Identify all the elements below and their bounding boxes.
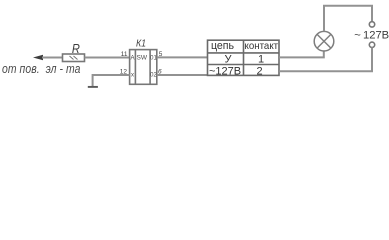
svg-text:К1: К1 — [136, 38, 146, 49]
connector table — [208, 40, 280, 75]
svg-text:~127В: ~127В — [209, 65, 241, 77]
svg-text:2: 2 — [256, 65, 262, 77]
wire relay pin 6 to table circuit ~127V — [157, 74, 208, 76]
svg-text:контакт: контакт — [245, 41, 279, 52]
lamp — [314, 31, 334, 51]
svg-text:А: А — [130, 56, 134, 62]
svg-text:11: 11 — [121, 51, 128, 58]
svg-text:SW: SW — [137, 55, 148, 62]
svg-text:У: У — [225, 53, 233, 65]
wire table contact 1 to lamp — [279, 51, 324, 57]
wire resistor to relay pin 11 — [85, 57, 130, 59]
terminal 1 — [369, 22, 374, 27]
svg-text:х: х — [131, 73, 134, 79]
wire relay pin 5 to table circuit U — [157, 56, 208, 58]
wire lamp to terminal 1 — [324, 6, 372, 31]
arrow to external element — [33, 55, 63, 60]
resistor R — [63, 54, 85, 62]
ground — [88, 86, 98, 88]
terminal 2 — [369, 42, 374, 47]
wire relay pin 12 to ground — [93, 75, 130, 86]
svg-text:от пов. эл - та: от пов. эл - та — [2, 62, 81, 76]
wire terminal 2 to table contact 2 — [279, 48, 372, 72]
svg-text:цепь: цепь — [211, 40, 235, 52]
svg-text:02: 02 — [150, 73, 157, 79]
svg-text:~ 127В: ~ 127В — [354, 29, 389, 41]
svg-text:01: 01 — [150, 56, 157, 62]
relay K1 box — [130, 50, 157, 85]
svg-text:1: 1 — [258, 53, 264, 65]
svg-text:R: R — [72, 41, 80, 56]
